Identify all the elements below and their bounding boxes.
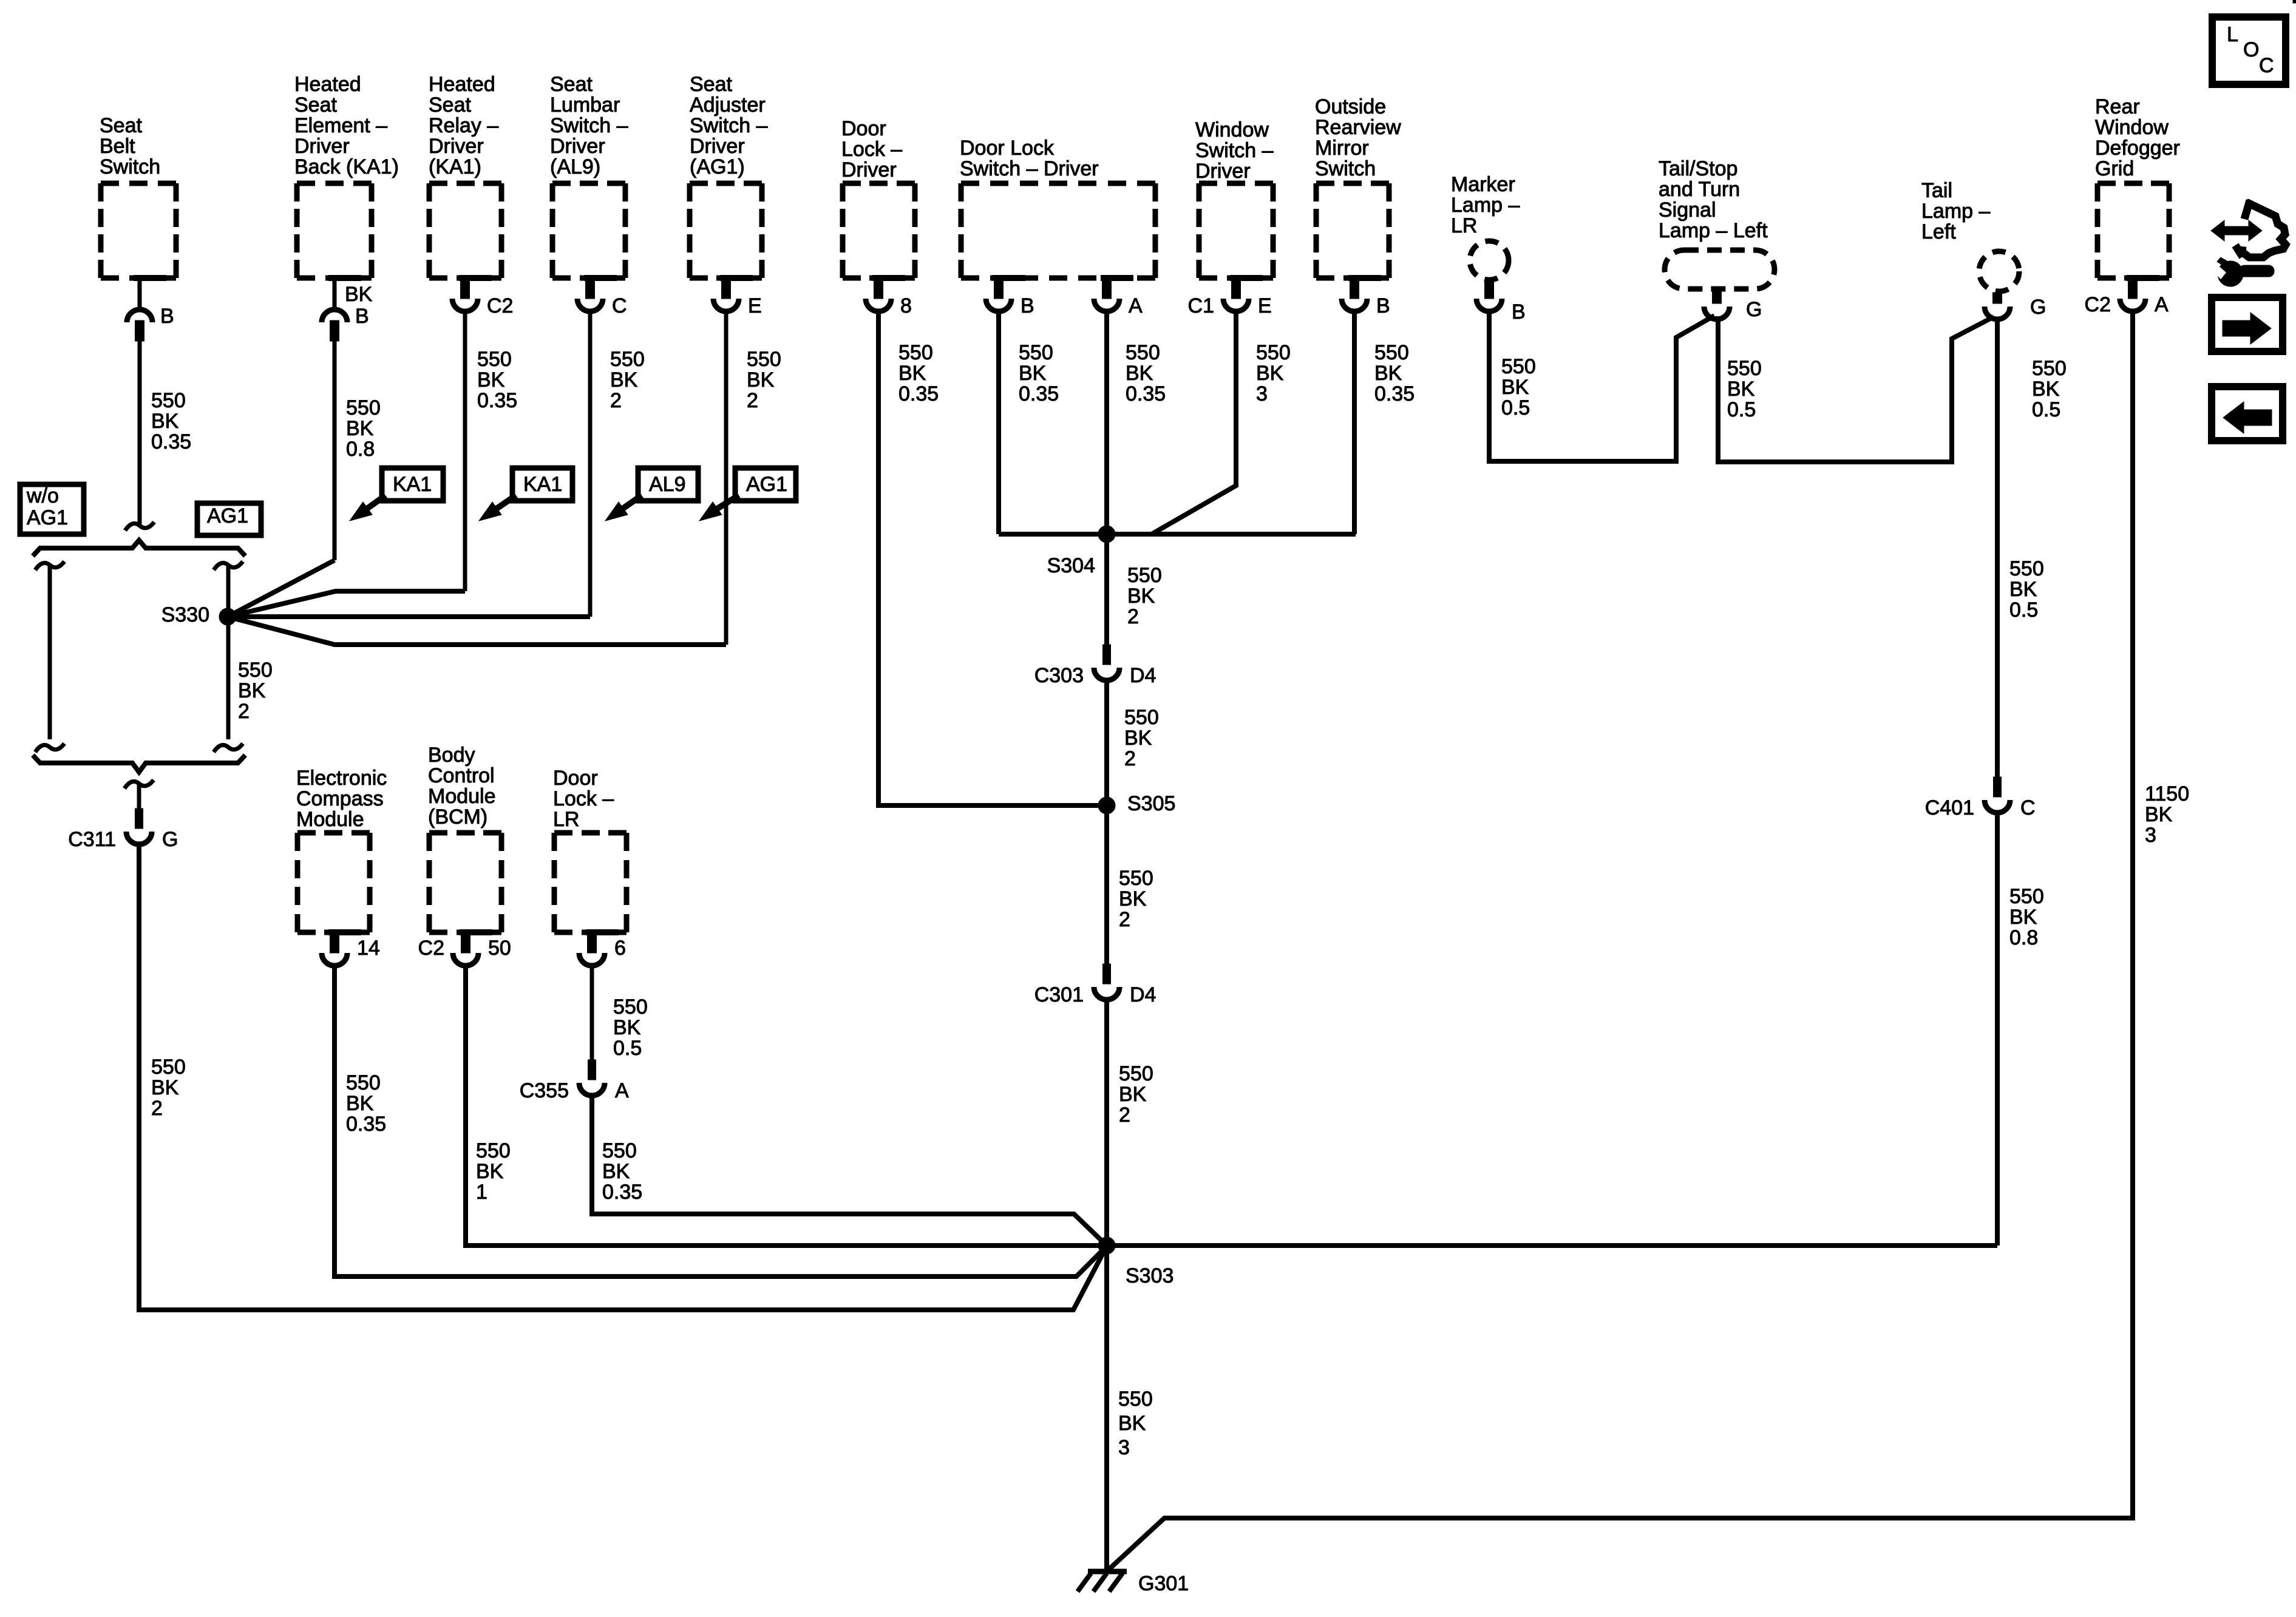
svg-text:BK: BK <box>476 1160 504 1183</box>
svg-text:BK: BK <box>613 1016 641 1039</box>
svg-text:0.35: 0.35 <box>898 382 939 405</box>
component box Heated Seat Element - Driver Back <box>297 183 372 278</box>
label Door Lock LR <box>553 767 614 831</box>
svg-text:0.5: 0.5 <box>613 1037 642 1060</box>
label 550 BK 3 ground lead <box>1118 1388 1153 1459</box>
svg-text:0.35: 0.35 <box>602 1181 642 1204</box>
svg-text:Belt: Belt <box>100 135 135 158</box>
connector pin Door Lock Switch pin B <box>986 278 1034 317</box>
wire S330 to heated seat relay <box>228 591 465 617</box>
svg-text:w/o: w/o <box>26 484 59 507</box>
label Outside Rearview Mirror Switch <box>1315 95 1401 180</box>
svg-text:550: 550 <box>151 1056 186 1079</box>
svg-text:O: O <box>2243 38 2259 61</box>
label Body Control Module <box>428 744 496 829</box>
component Marker Lamp - LR (dashed circle) <box>1470 241 1509 280</box>
svg-text:14: 14 <box>357 937 380 960</box>
label 550 BK 0.35 compass <box>346 1071 386 1136</box>
wire S303 to G301 <box>1104 1246 1109 1571</box>
label Heated Seat Element <box>294 73 399 178</box>
svg-text:BK: BK <box>898 362 926 385</box>
wire door lock switch B lead <box>996 311 1001 534</box>
svg-text:C301: C301 <box>1034 983 1084 1006</box>
component box Heated Seat Relay - Driver <box>429 183 501 278</box>
wire C301 to S303 <box>1104 998 1109 1246</box>
svg-text:S303: S303 <box>1126 1264 1173 1287</box>
wire S304 ground bus <box>999 532 1356 537</box>
svg-text:Grid: Grid <box>2095 157 2134 180</box>
icon power flow hand with wrench <box>2211 200 2286 286</box>
svg-text:Tail: Tail <box>1921 179 1952 202</box>
wire S304 to C303 <box>1104 534 1109 645</box>
svg-text:Driver: Driver <box>1195 160 1251 183</box>
wire BCM to S303 <box>466 966 1105 1246</box>
svg-text:550: 550 <box>476 1139 511 1162</box>
svg-text:C: C <box>2020 796 2036 819</box>
component box Door Lock - LR <box>554 833 627 932</box>
svg-text:BK: BK <box>238 679 266 702</box>
label 550 BK 2 S304-C303 <box>1127 564 1162 628</box>
wire brace to C311 <box>137 784 141 810</box>
svg-text:KA1: KA1 <box>523 473 562 496</box>
svg-text:C303: C303 <box>1034 664 1084 687</box>
svg-text:1: 1 <box>476 1181 487 1204</box>
label 550 BK 0.5 marker <box>1501 355 1536 419</box>
connector pin Seat Lumbar Switch pin C <box>577 278 627 317</box>
label 550 BK 0.8 heated seat element <box>346 396 381 461</box>
wire door lock driver lead <box>878 311 1105 805</box>
wire mirror switch lead <box>1352 311 1357 534</box>
connector pin Seat Adjuster Switch pin E <box>713 278 762 317</box>
svg-text:Lamp – Left: Lamp – Left <box>1659 219 1768 242</box>
svg-text:(KA1): (KA1) <box>429 155 481 178</box>
svg-text:2: 2 <box>1119 908 1130 931</box>
svg-text:AG1: AG1 <box>27 506 68 529</box>
svg-text:Module: Module <box>296 808 364 831</box>
connector pin Marker Lamp B <box>1476 280 1526 324</box>
svg-text:Lock –: Lock – <box>841 138 902 161</box>
svg-text:LR: LR <box>1451 214 1477 237</box>
svg-text:3: 3 <box>2145 824 2156 847</box>
wire seat lumbar lead <box>588 311 593 617</box>
connector pin Mirror Switch pin B <box>1342 278 1390 317</box>
label 550 BK 2 C303-S305 <box>1124 706 1159 770</box>
svg-text:550: 550 <box>1119 867 1153 890</box>
splice S330 <box>219 608 236 625</box>
label Seat Lumbar Switch <box>550 73 628 178</box>
svg-text:Mirror: Mirror <box>1315 137 1369 160</box>
wire S303 bus to tail chain <box>1107 1243 1997 1248</box>
label 550 BK 2 c311 chain <box>151 1056 186 1120</box>
svg-text:E: E <box>1258 294 1272 317</box>
svg-text:Seat: Seat <box>294 93 337 117</box>
label Seat Adjuster Switch <box>690 73 768 178</box>
splice S303 <box>1098 1237 1115 1254</box>
label 550 BK 0.35 dls b <box>1019 341 1059 405</box>
connector C301 <box>1034 964 1156 1006</box>
svg-text:BK: BK <box>2009 906 2037 929</box>
svg-text:Switch: Switch <box>100 155 160 178</box>
connector pin Door Lock Driver pin 8 <box>866 278 912 317</box>
label 550 BK 2 C301-S303 <box>1119 1062 1153 1127</box>
svg-text:Seat: Seat <box>429 93 471 117</box>
label Seat Belt Switch <box>100 114 160 178</box>
svg-text:550: 550 <box>477 348 512 371</box>
component box Rear Window Defogger Grid <box>2097 183 2169 278</box>
component box Electronic Compass Module <box>297 833 370 932</box>
wire C355 to S303 <box>592 1094 1107 1246</box>
svg-text:0.8: 0.8 <box>346 438 375 461</box>
label 550 BK 0.5 door lock LR <box>613 995 648 1060</box>
wire seat belt switch lead <box>138 341 142 526</box>
wire window switch lead <box>1152 311 1236 534</box>
svg-text:Lumbar: Lumbar <box>550 93 620 117</box>
label Heated Seat Relay <box>429 73 498 178</box>
svg-text:BK: BK <box>346 417 374 440</box>
wire hook below bottom brace <box>124 780 154 788</box>
component box Door Lock - Driver <box>843 183 915 278</box>
label Marker Lamp LR <box>1451 173 1520 237</box>
component box Seat Adjuster Switch - Driver <box>690 183 762 278</box>
brace bottom (options merge) <box>33 755 245 772</box>
svg-text:0.35: 0.35 <box>1126 382 1166 405</box>
svg-text:Outside: Outside <box>1315 95 1386 118</box>
label 550 BK 0.5 tail mid <box>2009 557 2044 622</box>
svg-text:Heated: Heated <box>429 73 495 96</box>
svg-text:550: 550 <box>1126 341 1160 364</box>
svg-text:550: 550 <box>2032 357 2067 380</box>
svg-text:2: 2 <box>1119 1103 1130 1127</box>
svg-text:BK: BK <box>1019 362 1047 385</box>
svg-text:0.35: 0.35 <box>346 1113 386 1136</box>
svg-text:Rearview: Rearview <box>1315 116 1401 139</box>
svg-text:0.5: 0.5 <box>1501 396 1530 419</box>
svg-text:0.5: 0.5 <box>2009 598 2038 622</box>
svg-text:Defogger: Defogger <box>2095 137 2180 160</box>
wire AG1 option branch <box>214 561 243 752</box>
svg-text:550: 550 <box>613 995 648 1019</box>
svg-text:2: 2 <box>610 389 622 412</box>
svg-text:AG1: AG1 <box>207 504 248 527</box>
label 550 BK 0.35 heated seat relay <box>477 348 517 412</box>
svg-text:C401: C401 <box>1925 796 1974 819</box>
svg-text:C: C <box>2259 54 2274 77</box>
svg-text:C2: C2 <box>418 937 444 960</box>
svg-text:(AL9): (AL9) <box>550 155 600 178</box>
svg-text:BK: BK <box>1119 887 1147 910</box>
svg-text:3: 3 <box>1256 382 1268 405</box>
svg-text:AG1: AG1 <box>746 473 787 496</box>
svg-text:A: A <box>615 1079 629 1102</box>
label 550 BK 2 seat lumbar <box>610 348 645 412</box>
icon LOC box <box>2212 17 2286 84</box>
svg-text:BK: BK <box>1256 362 1284 385</box>
svg-text:C2: C2 <box>2085 293 2111 316</box>
svg-text:Control: Control <box>428 764 495 787</box>
wire C303 to S305 <box>1104 679 1109 805</box>
icon arrow left box <box>2212 387 2283 441</box>
svg-text:550: 550 <box>151 389 186 412</box>
svg-text:Door: Door <box>553 767 598 790</box>
label Door Lock Switch Driver <box>960 137 1099 180</box>
svg-text:Driver: Driver <box>550 135 605 158</box>
svg-text:550: 550 <box>1501 355 1536 378</box>
svg-text:Switch –: Switch – <box>1195 139 1274 162</box>
label Door Lock Driver <box>841 117 902 181</box>
svg-text:BK: BK <box>1126 362 1153 385</box>
label 550 BK 0.35 door lock driver <box>898 341 939 405</box>
svg-text:G301: G301 <box>1138 1572 1189 1595</box>
connector pin Rear Defogger C2/A <box>2085 278 2169 316</box>
svg-text:BK: BK <box>747 368 775 392</box>
wire door lock LR to C355 <box>590 966 594 1060</box>
label S303 splice label <box>1126 1264 1173 1287</box>
connector pin Heated Seat Element pin B <box>322 278 373 341</box>
component box Door Lock Switch - Driver <box>961 183 1155 278</box>
svg-text:B: B <box>355 305 369 328</box>
svg-text:Door: Door <box>841 117 886 140</box>
connector pin Window Switch pin E <box>1188 278 1272 317</box>
svg-text:Marker: Marker <box>1451 173 1515 196</box>
svg-text:BK: BK <box>1119 1083 1147 1106</box>
svg-text:BK: BK <box>2145 803 2173 826</box>
label 550 BK 2 S305-C301 <box>1119 867 1153 931</box>
connector pin Compass 14 <box>322 932 380 966</box>
svg-text:550: 550 <box>602 1139 637 1162</box>
svg-text:KA1: KA1 <box>393 473 432 496</box>
component box Seat Lumbar Switch - Driver <box>552 183 625 278</box>
svg-text:8: 8 <box>900 294 912 317</box>
svg-text:L: L <box>2227 23 2238 46</box>
svg-text:550: 550 <box>610 348 645 371</box>
label G301 label <box>1138 1572 1189 1595</box>
svg-text:BK: BK <box>1127 585 1155 608</box>
connector C401 <box>1925 777 2036 819</box>
label 550 BK 0.35 mirror <box>1374 341 1415 405</box>
svg-text:S304: S304 <box>1047 554 1095 577</box>
svg-text:Tail/Stop: Tail/Stop <box>1659 157 1737 180</box>
svg-text:C355: C355 <box>520 1079 569 1102</box>
option tag KA1 (tag2) <box>479 468 572 521</box>
svg-text:G: G <box>1746 298 1762 321</box>
svg-text:0.35: 0.35 <box>1374 382 1415 405</box>
connector pin Door Lock LR 6 <box>579 932 626 966</box>
label 550 BK 0.35 C355 chain <box>602 1139 642 1204</box>
label 550 BK 1 BCM <box>476 1139 511 1204</box>
svg-text:2: 2 <box>747 389 758 412</box>
label Electronic Compass Module <box>296 767 387 831</box>
svg-text:LR: LR <box>553 808 579 831</box>
label Rear Window Defogger Grid <box>2095 95 2180 180</box>
svg-text:S330: S330 <box>161 603 209 626</box>
svg-text:0.5: 0.5 <box>1727 398 1756 421</box>
component box Outside Rearview Mirror Switch <box>1316 183 1389 278</box>
svg-text:Signal: Signal <box>1659 198 1716 222</box>
svg-text:BK: BK <box>1501 376 1529 399</box>
svg-text:B: B <box>1512 300 1526 324</box>
svg-text:AL9: AL9 <box>649 473 686 496</box>
wire heated seat element lead <box>333 341 337 560</box>
connector pin Tail/Stop Lamp G <box>1704 289 1762 321</box>
label 550 BK 2 seat adjuster <box>747 348 781 412</box>
label 550 BK 0.5 tail stop <box>1727 357 1762 421</box>
splice S304 <box>1098 526 1115 543</box>
wire door lock switch A lead <box>1104 311 1109 534</box>
svg-text:C311: C311 <box>68 828 116 851</box>
wire tail lamp to C401 <box>1995 317 2000 777</box>
svg-text:Window: Window <box>1195 118 1269 141</box>
label 550 BK 3 window switch <box>1256 341 1291 405</box>
svg-text:Adjuster: Adjuster <box>690 93 766 117</box>
svg-text:0.35: 0.35 <box>151 430 191 453</box>
option tag KA1 (tag1) <box>350 468 443 521</box>
label Tail Stop Turn Signal Lamp <box>1659 157 1768 242</box>
svg-text:550: 550 <box>1118 1388 1153 1411</box>
wire compass to S303 <box>335 966 1107 1276</box>
svg-text:BK: BK <box>151 1076 179 1099</box>
wire heated seat relay lead <box>463 311 467 591</box>
svg-text:Electronic: Electronic <box>296 767 387 790</box>
wire C311 to corner <box>139 844 1107 1310</box>
svg-text:Relay –: Relay – <box>429 114 498 137</box>
svg-text:C2: C2 <box>487 294 513 317</box>
svg-text:550: 550 <box>2009 885 2044 908</box>
ground G301 <box>1078 1571 1127 1592</box>
svg-text:Element –: Element – <box>294 114 387 137</box>
connector pin Heated Seat Relay pin C2 <box>452 278 513 317</box>
component Tail/Stop and Turn Signal Lamp - Left (dashed stadium) <box>1665 250 1775 289</box>
connector pin Tail Lamp G <box>1985 293 2046 319</box>
svg-text:Door Lock: Door Lock <box>960 137 1055 160</box>
wire S330 to heated seat element <box>228 560 335 617</box>
connector C311 <box>68 808 178 851</box>
svg-text:Driver: Driver <box>690 135 745 158</box>
svg-text:550: 550 <box>346 396 381 419</box>
svg-text:Heated: Heated <box>294 73 361 96</box>
label S304 splice label <box>1047 554 1095 577</box>
svg-text:Driver: Driver <box>429 135 484 158</box>
svg-text:BK: BK <box>1124 727 1152 750</box>
connector pin Door Lock Switch pin A <box>1094 278 1143 317</box>
wire seat adjuster lead <box>724 311 729 645</box>
svg-text:BK: BK <box>602 1160 630 1183</box>
option tag AG1 (tag4) <box>699 468 796 521</box>
label 550 BK 0.35 seat belt <box>151 389 191 453</box>
svg-text:550: 550 <box>1119 1062 1153 1085</box>
connector pin Seat Belt Switch pin B <box>127 278 174 341</box>
svg-text:and Turn: and Turn <box>1659 178 1740 201</box>
svg-text:Seat: Seat <box>690 73 732 96</box>
svg-text:0.5: 0.5 <box>2032 398 2060 421</box>
brace top (options split) <box>33 540 245 556</box>
svg-text:Compass: Compass <box>296 787 384 810</box>
page corner mark <box>2293 0 2296 3</box>
wire S305 to C301 <box>1104 805 1109 964</box>
svg-text:Switch –: Switch – <box>550 114 628 137</box>
svg-text:0.35: 0.35 <box>477 389 517 412</box>
svg-text:Switch –: Switch – <box>690 114 768 137</box>
svg-text:550: 550 <box>346 1071 381 1094</box>
svg-text:Switch: Switch <box>1315 157 1376 180</box>
svg-text:Lamp –: Lamp – <box>1451 194 1520 217</box>
svg-text:2: 2 <box>238 700 250 723</box>
svg-text:G: G <box>162 828 178 851</box>
connector C303 <box>1034 645 1156 687</box>
label 550 BK 2 below S330 <box>238 659 273 723</box>
svg-text:550: 550 <box>747 348 781 371</box>
component box Seat Belt Switch <box>101 183 176 278</box>
svg-text:550: 550 <box>1127 564 1162 587</box>
svg-text:Driver: Driver <box>841 158 897 181</box>
splice S305 <box>1098 797 1115 814</box>
option tag AG1 <box>197 503 261 535</box>
svg-text:Seat: Seat <box>100 114 142 137</box>
svg-text:C1: C1 <box>1188 294 1214 317</box>
svg-text:B: B <box>1376 294 1390 317</box>
svg-text:BK: BK <box>2009 578 2037 601</box>
svg-text:3: 3 <box>1118 1436 1130 1459</box>
connector pin BCM C2 50 <box>418 932 511 966</box>
svg-text:2: 2 <box>1124 747 1136 770</box>
svg-text:Driver: Driver <box>294 135 350 158</box>
component Tail Lamp - Left (dashed circle) <box>1979 251 2019 291</box>
option tag w/o AG1 <box>20 484 84 534</box>
component box Window Switch - Driver <box>1199 183 1273 278</box>
svg-text:B: B <box>1021 294 1034 317</box>
svg-text:Left: Left <box>1921 220 1956 243</box>
wire S330 to seat lumbar <box>228 614 590 619</box>
svg-text:BK: BK <box>2032 378 2060 401</box>
svg-text:2: 2 <box>1127 605 1139 628</box>
svg-text:0.35: 0.35 <box>1019 382 1059 405</box>
component box Body Control Module (BCM) <box>429 833 501 932</box>
svg-text:BK: BK <box>151 410 179 433</box>
svg-text:Lamp –: Lamp – <box>1921 200 1990 223</box>
svg-text:550: 550 <box>1124 706 1159 729</box>
svg-text:S305: S305 <box>1127 792 1175 815</box>
connector C355 <box>520 1060 629 1102</box>
wire marker lamp to tail/stop G <box>1489 310 1714 461</box>
svg-text:550: 550 <box>1374 341 1409 364</box>
svg-text:(AG1): (AG1) <box>690 155 745 178</box>
wire C401 to S303 bus <box>1995 812 2000 1246</box>
svg-text:Window: Window <box>2095 116 2169 139</box>
svg-text:550: 550 <box>898 341 933 364</box>
label Window Switch Driver <box>1195 118 1274 183</box>
svg-text:Rear: Rear <box>2095 95 2140 118</box>
svg-text:BK: BK <box>610 368 638 392</box>
svg-text:BK: BK <box>345 283 373 306</box>
svg-text:50: 50 <box>488 937 511 960</box>
svg-text:550: 550 <box>1256 341 1291 364</box>
svg-text:Body: Body <box>428 744 475 767</box>
label S305 splice label <box>1127 792 1175 815</box>
svg-text:Switch – Driver: Switch – Driver <box>960 157 1099 180</box>
wire tail/stop to tail lamp G <box>1718 316 1994 462</box>
option tag AL9 (tag3) <box>605 468 698 521</box>
svg-text:Module: Module <box>428 785 496 808</box>
svg-text:A: A <box>2155 293 2169 316</box>
label Tail Lamp Left <box>1921 179 1990 243</box>
svg-text:2: 2 <box>151 1097 163 1120</box>
svg-text:BK: BK <box>1374 362 1402 385</box>
wire hook seat belt lead end <box>125 522 154 531</box>
svg-text:B: B <box>160 305 174 328</box>
label 550 BK 0.5 tail lamp <box>2032 357 2067 421</box>
svg-text:D4: D4 <box>1130 664 1156 687</box>
svg-text:BK: BK <box>346 1092 374 1115</box>
svg-text:BK: BK <box>477 368 505 392</box>
